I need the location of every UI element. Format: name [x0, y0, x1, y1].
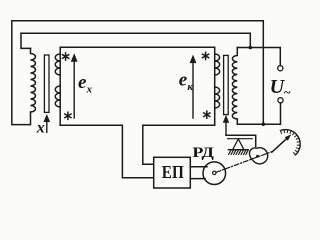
polarity asterisk right coil top [203, 52, 209, 59]
label e_k [179, 70, 194, 93]
junction dot (bus to terminal line) [249, 46, 253, 50]
coil secondary e_k lower half (on right edge) [215, 87, 220, 108]
arrow compensating displacement (cam to core) [223, 115, 229, 136]
polarity asterisk right coil bottom [204, 111, 210, 118]
wire amplifier to motor lower [190, 178, 205, 180]
arrow e_x emf [71, 53, 78, 118]
motor RD circle [203, 162, 226, 185]
wire measuring loop bottom left to amplifier [60, 125, 154, 178]
wire measuring loop bottom right to amplifier [143, 125, 215, 164]
arrow e_k emf [190, 55, 197, 118]
wire supply bus (second horizontal line) [21, 33, 250, 47]
polarity asterisk left coil bottom [65, 112, 71, 119]
terminal upper U~ [278, 66, 283, 71]
svg-text:ЕП: ЕП [162, 162, 184, 182]
cam profile [249, 148, 267, 164]
terminal lower U~ [278, 98, 283, 103]
cam center dot [256, 155, 259, 158]
core plunger left (measuring transducer) [44, 55, 49, 112]
wire supply outer loop (left primary bottom, frame left, top, right edge) [12, 21, 263, 125]
svg-text:x: x [36, 120, 45, 137]
arrow x displacement input [44, 114, 51, 132]
label EP [162, 162, 184, 182]
label U~ supply voltage [270, 76, 291, 100]
pivot ground bar with hatching [228, 150, 248, 155]
pointer needle arrow [272, 134, 292, 152]
wire right supply line to terminals [237, 48, 280, 66]
coil L2 right excitation primary winding [232, 48, 237, 119]
label x [36, 120, 45, 137]
pivot fulcrum triangle [233, 139, 244, 150]
label e_x [78, 72, 93, 95]
coil secondary e_x lower half (on left edge) [55, 86, 60, 107]
wire from bus to left primary top [21, 33, 31, 48]
shaft dash-dot line motor to cam to pointer [216, 152, 271, 172]
svg-text:к: к [187, 81, 193, 93]
svg-text:РД: РД [192, 145, 214, 161]
coil secondary e_k upper half (on right edge) [215, 54, 220, 75]
wire amplifier to motor upper [190, 166, 207, 168]
label RD [192, 145, 214, 161]
junction dot (frame right to bottom wire) [262, 122, 266, 126]
core plunger right (compensating transducer) [224, 55, 229, 114]
svg-text:~: ~ [284, 85, 291, 100]
svg-text:x: x [86, 83, 93, 95]
coil L1 left excitation primary winding [31, 48, 36, 112]
lever beam (core to cam follower) [226, 135, 256, 146]
amplifier EP box [154, 157, 191, 188]
coil secondary e_x upper half (on left edge) [55, 54, 60, 75]
measuring loop rectangle (secondary circuit) top edge [60, 47, 215, 125]
motor shaft center [213, 171, 216, 174]
indicator scale arc with ticks [281, 130, 301, 155]
polarity asterisk left coil top [63, 53, 69, 60]
wire bottom right (right primary bottom to lower terminal) [237, 103, 280, 124]
